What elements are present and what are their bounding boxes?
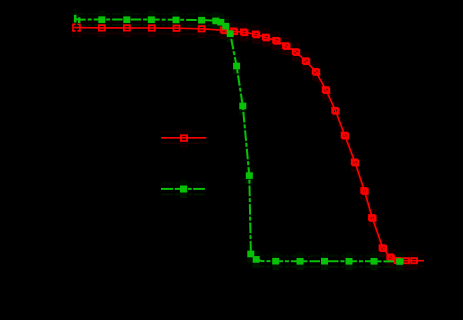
green marker 11: [239, 103, 246, 110]
red marker pair 15: [361, 188, 368, 194]
legend green sample dash 2: [175, 188, 180, 190]
legend green sample dash 3: [188, 188, 192, 190]
red marker 4: [174, 26, 180, 31]
green marker 12: [246, 172, 253, 179]
green marker 14: [253, 256, 260, 263]
green error bar point 2: [78, 17, 80, 23]
green marker 6: [212, 18, 219, 25]
red marker pair 3: [241, 29, 248, 35]
red marker pair 17: [379, 245, 386, 251]
red marker pair 10: [313, 69, 320, 75]
red marker 3: [149, 25, 155, 30]
green marker 2: [123, 16, 130, 23]
green marker 19: [371, 258, 378, 265]
green marker 18: [346, 258, 353, 265]
green marker 5: [198, 17, 205, 24]
legend red sample line: [161, 137, 206, 139]
legend red sample marker: [181, 135, 187, 141]
red marker pair 16: [369, 215, 376, 221]
red marker pair 2: [231, 28, 238, 34]
red marker 2: [124, 25, 130, 30]
red marker pair 4: [253, 31, 260, 37]
red marker pair 11: [323, 87, 330, 93]
red marker pair 1: [221, 27, 228, 33]
green marker 1: [98, 16, 105, 23]
green marker 8: [222, 23, 229, 30]
red marker pair 9: [303, 58, 310, 64]
green marker 3: [148, 16, 155, 23]
green marker 10: [233, 63, 240, 70]
red marker pair 6: [273, 38, 280, 44]
green marker 4: [173, 17, 180, 24]
red marker 1: [99, 25, 105, 30]
green marker 9: [227, 30, 234, 37]
red marker pair 7: [283, 43, 290, 49]
legend green sample marker: [180, 186, 187, 193]
red marker tail 3: [411, 258, 417, 263]
red marker tail 2: [403, 258, 409, 263]
green marker 15: [272, 258, 279, 265]
legend green sample dash 1: [161, 188, 173, 190]
red marker tail 1: [395, 258, 401, 263]
green error bar point 1: [74, 15, 77, 23]
red marker pair 14: [352, 159, 359, 165]
green marker 7: [217, 19, 224, 26]
green marker 20: [396, 258, 403, 265]
red marker pair 18: [387, 254, 394, 260]
green marker 16: [297, 258, 304, 265]
green marker 13: [247, 251, 254, 258]
green curve line (dashed): [75, 19, 403, 261]
red marker 5: [199, 26, 205, 31]
red marker pair 5: [263, 34, 270, 40]
red marker pair 12: [332, 108, 339, 114]
red marker pair 8: [293, 49, 300, 55]
red marker pair 13: [341, 133, 348, 139]
legend green sample dash 4: [193, 188, 205, 190]
green marker 17: [321, 258, 328, 265]
red error bracket point 1: [73, 24, 80, 31]
red curve line (solid): [74, 28, 424, 261]
